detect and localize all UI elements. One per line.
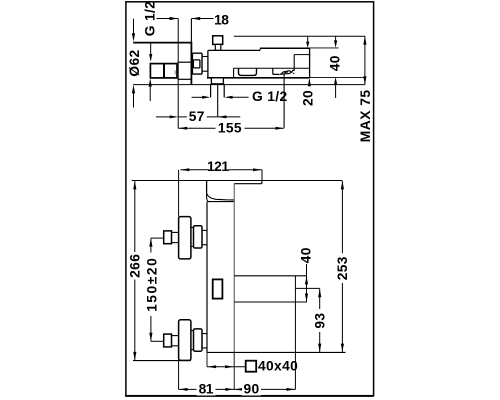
G 1/2 hose left arrow [192, 96, 203, 98]
upper left supply nut [164, 231, 172, 244]
in-wall elbow box [150, 64, 177, 78]
label 57 [187, 110, 207, 123]
elbow gray tick [174, 70, 176, 74]
81 left extension [178, 360, 180, 389]
dim 150±20 line [150, 238, 152, 252]
shower hose nut under body [211, 78, 223, 84]
mixer body outline [208, 49, 260, 51]
pointer arrow up at elbow bottom [149, 87, 151, 101]
lower right union [191, 330, 194, 332]
svg-text:40x40: 40x40 [258, 358, 298, 373]
in-wall elbow bottom tail to wall [178, 78, 192, 80]
40x40 square symbol [246, 361, 257, 372]
escutcheon front face (thick) [190, 42, 192, 85]
svg-text:40: 40 [298, 247, 313, 263]
dim 40 (stub) [306, 264, 308, 302]
dim 121 line [180, 169, 209, 171]
svg-text:81: 81 [199, 381, 214, 396]
dim 40 bottom arrow [335, 85, 337, 98]
column left edge [206, 202, 208, 353]
connection nut behind wall [192, 53, 202, 74]
121 right extension [261, 170, 263, 181]
dim 81/90 line [179, 388, 296, 390]
dim 57 line [178, 116, 218, 118]
dim 57 left outside arrow [156, 116, 171, 118]
svg-text:G 1/2: G 1/2 [252, 89, 288, 104]
svg-text:MAX 75: MAX 75 [358, 89, 373, 142]
border frame [126, 2, 374, 396]
diverter valve (flag shape) left bracket [273, 68, 280, 74]
dim 155 line [178, 127, 284, 129]
svg-text:90: 90 [243, 381, 259, 396]
dim 266 line [134, 181, 136, 252]
upper right union [191, 226, 194, 228]
aerator recess (U shape) [239, 68, 257, 75]
svg-text:155: 155 [218, 120, 242, 135]
svg-text:18: 18 [214, 12, 229, 27]
svg-text:57: 57 [189, 109, 205, 124]
internal step tick [233, 68, 235, 78]
svg-text:40: 40 [327, 55, 342, 71]
121 left extension [178, 170, 180, 217]
dim 93 line [319, 288, 321, 309]
top line A [132, 180, 343, 182]
hose center line [217, 84, 219, 117]
nut inner square [193, 60, 200, 68]
body internal line [234, 67, 310, 69]
lever curve [207, 193, 234, 200]
pointer arrow down at elbow top [150, 43, 152, 54]
G 1/2 hose right arrow [232, 96, 248, 98]
escutcheon top edge (thick) [133, 42, 191, 44]
dim 18 right leader line with left arrowhead [192, 18, 214, 20]
dim 253 line [341, 181, 343, 253]
spout notch [261, 181, 263, 184]
shower outlet stub [234, 275, 307, 277]
diverter valve tilted body [281, 71, 292, 75]
dim Ø62 top arrow [133, 19, 135, 34]
neck between nut and body [202, 56, 208, 58]
upper escutcheon [179, 217, 191, 259]
150 jog lines [151, 237, 164, 239]
dim 18 left leader line with right arrowhead [157, 18, 179, 20]
svg-text:266: 266 [128, 254, 143, 278]
in-wall elbow top tail to wall [178, 61, 192, 63]
label 90 [242, 383, 261, 396]
svg-text:G 1/2: G 1/2 [142, 1, 157, 37]
dim 40 extension [310, 47, 339, 49]
label 81 [197, 383, 216, 396]
pointer arrow down to spout top [307, 36, 309, 42]
spout outlet center line [283, 74, 285, 128]
lower escutcheon [179, 320, 191, 361]
svg-text:150±20: 150±20 [144, 257, 159, 312]
bar left edge [206, 181, 208, 194]
dim Ø62 bottom arrow [133, 93, 135, 108]
svg-text:253: 253 [335, 256, 350, 280]
fixture bottom reference line [133, 360, 191, 362]
label plate on column [213, 279, 223, 298]
diverter knob on body top [213, 36, 223, 45]
column right edge [233, 184, 235, 353]
elbow divider [163, 64, 165, 78]
hose connector tube walls [210, 84, 212, 98]
dim 40 top arrow [335, 36, 337, 41]
label 155 [216, 121, 245, 134]
svg-text:20: 20 [301, 90, 316, 106]
svg-text:93: 93 [313, 313, 328, 329]
pointer arrow 20 [308, 80, 310, 87]
lower left supply nut [164, 334, 172, 347]
spout step line [294, 54, 309, 56]
svg-text:121: 121 [207, 159, 229, 174]
dim MAX 75 line [364, 36, 366, 84]
hose extension line [294, 276, 296, 390]
svg-text:Ø62: Ø62 [127, 49, 142, 76]
stub center line [295, 287, 319, 289]
extension line wall back face [177, 19, 179, 129]
diverter valve right bracket [292, 70, 295, 72]
reference line (escutcheon bottom edge, long thin) [133, 84, 365, 86]
body bottom thin extension to 40-dim and MAX75 line [310, 77, 365, 79]
dim 57 right outside arrow [218, 116, 241, 118]
jog line top right [234, 35, 365, 37]
extension line escutcheon front face [190, 19, 192, 43]
dim 40x40 leader line [207, 366, 246, 368]
column bottom [207, 351, 346, 353]
